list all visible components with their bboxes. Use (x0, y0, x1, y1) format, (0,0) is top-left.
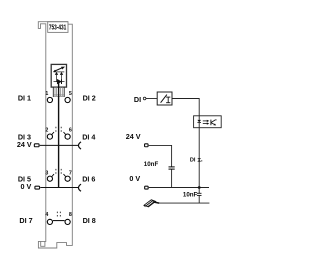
svg-text:8: 8 (69, 212, 72, 218)
svg-text:4: 4 (45, 212, 48, 218)
svg-text:DI: DI (134, 95, 141, 104)
svg-text:7: 7 (69, 171, 72, 177)
svg-text:24 V: 24 V (126, 132, 141, 141)
svg-text:2: 2 (45, 127, 48, 133)
svg-text:DI 2: DI 2 (83, 93, 96, 102)
svg-text:6: 6 (69, 127, 72, 133)
svg-text:753-431: 753-431 (49, 25, 67, 32)
svg-text:5: 5 (69, 91, 72, 97)
svg-text:1: 1 (45, 91, 48, 97)
svg-text:24 V: 24 V (17, 140, 32, 149)
svg-text:DI 6: DI 6 (82, 174, 95, 183)
svg-text:3: 3 (45, 171, 48, 177)
svg-text:10nF: 10nF (183, 192, 198, 199)
svg-text:0 V: 0 V (21, 182, 32, 191)
svg-text:DI 7: DI 7 (19, 216, 32, 225)
svg-text:0 V: 0 V (129, 174, 140, 183)
svg-text:DI: DI (190, 157, 196, 163)
svg-text:DI 1: DI 1 (18, 93, 31, 102)
svg-text:10nF: 10nF (144, 161, 159, 168)
svg-text:DI 4: DI 4 (82, 133, 95, 142)
svg-text:DI 8: DI 8 (83, 216, 96, 225)
